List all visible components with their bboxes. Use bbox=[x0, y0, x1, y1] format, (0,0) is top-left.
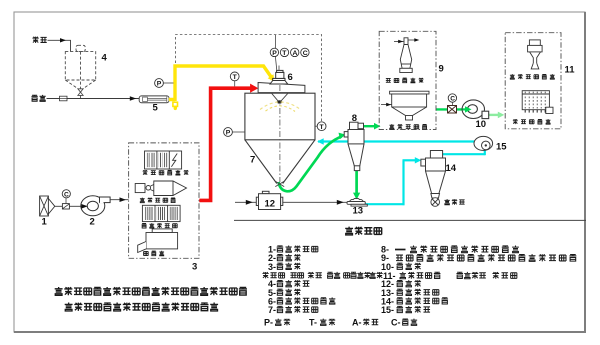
wire feed line into tank 4 bbox=[48, 40, 71, 51]
svg-text:14: 14 bbox=[446, 163, 457, 174]
wire green box 9 to fan 10 bbox=[436, 108, 466, 110]
svg-text:12: 12 bbox=[265, 199, 276, 210]
valve with C controller near filter bbox=[62, 204, 69, 209]
label 布袋除尘器 bbox=[389, 124, 427, 129]
control valve before fan 10 bbox=[448, 106, 457, 114]
wire fan 2 to heater box 3 bbox=[110, 199, 129, 201]
svg-text:11: 11 bbox=[565, 65, 576, 76]
wire cyan 14 to fan 15 bbox=[443, 153, 485, 155]
heat exchanger unit steam+electric bbox=[145, 151, 182, 169]
svg-text:3-: 3- bbox=[268, 262, 276, 272]
heater enclosure box 3 (dash-dot) bbox=[129, 143, 199, 258]
wire dashed signal line bbox=[176, 35, 322, 122]
svg-text:4: 4 bbox=[102, 53, 108, 64]
svg-text:P-: P- bbox=[264, 318, 273, 328]
svg-text:10-: 10- bbox=[381, 262, 394, 272]
svg-text:6: 6 bbox=[288, 72, 293, 83]
tower lid bbox=[258, 83, 305, 93]
collector enclosure box 9 (dash-dot) bbox=[379, 31, 436, 129]
label 导热油换热 bbox=[142, 223, 178, 228]
svg-text:1: 1 bbox=[42, 217, 48, 228]
tower centerline (dash-dot) bbox=[279, 85, 281, 182]
label 出料口 discharge port bbox=[444, 199, 464, 205]
svg-text:7: 7 bbox=[250, 155, 255, 166]
svg-text:5: 5 bbox=[153, 103, 159, 114]
label 文丘里除尘器 bbox=[510, 74, 555, 79]
air filter F1 bbox=[40, 196, 55, 216]
label 蒸汽+电换热 bbox=[143, 170, 189, 175]
svg-text:C: C bbox=[64, 191, 69, 198]
wire line into 12 bbox=[235, 201, 257, 203]
label 喷淋除尘器 bbox=[513, 119, 551, 124]
rotary valve circle with X at 14 outlet bbox=[431, 198, 440, 207]
svg-text:T-: T- bbox=[309, 318, 317, 328]
svg-text:3: 3 bbox=[192, 262, 197, 273]
wire green cyclone 8 to box 9 bbox=[364, 125, 376, 127]
label 燃煤炉 bbox=[144, 251, 164, 256]
tank T4 feed tank (dashed) bbox=[65, 45, 95, 98]
svg-text:C-: C- bbox=[391, 318, 401, 328]
svg-text:C: C bbox=[303, 50, 308, 57]
label 燃油（气） bbox=[140, 198, 176, 203]
instruments P T A C on tower top bbox=[270, 48, 278, 56]
wire cyan riser bbox=[402, 160, 404, 205]
cone tip fitting bbox=[275, 181, 284, 186]
tower body 7 bbox=[245, 93, 315, 140]
instrument T gauge on red pipe bbox=[234, 81, 236, 87]
svg-text:7-: 7- bbox=[268, 305, 276, 315]
svg-text:15: 15 bbox=[496, 142, 507, 153]
legend separator line bbox=[234, 219, 586, 221]
yellow pipe end fitting below pump outlet bbox=[173, 102, 178, 106]
yellow spray arcs bbox=[260, 102, 301, 110]
bag dust collector bbox=[390, 91, 429, 120]
svg-text:15-: 15- bbox=[381, 305, 394, 315]
wire cyan exhaust line tower to fan 15 bbox=[318, 140, 474, 142]
svg-text:13: 13 bbox=[353, 206, 364, 217]
spray funnel inside tower bbox=[272, 93, 288, 101]
instrument T right of tower bbox=[315, 125, 317, 127]
svg-text:P: P bbox=[272, 50, 277, 57]
label 扩散分离器 bbox=[386, 78, 424, 83]
small cyclone 14 bbox=[421, 151, 446, 199]
svg-text:P: P bbox=[157, 81, 162, 88]
atomizer 6 bbox=[270, 70, 288, 84]
svg-text:10: 10 bbox=[476, 119, 487, 130]
dehumidifier 12 bbox=[256, 191, 283, 209]
valve on water line bbox=[60, 96, 68, 101]
oil/gas burner bbox=[135, 181, 186, 196]
wet scrubber enclosure box 11 (dash-dot) bbox=[505, 33, 561, 129]
valve under tank 4 bbox=[78, 89, 83, 96]
fan 15 small induced draft fan bbox=[474, 136, 493, 150]
cyclone 8 bbox=[344, 122, 364, 170]
wire cyan into cyclone 14 bbox=[403, 159, 417, 161]
wire clean water line to pump 5 bbox=[47, 98, 140, 100]
lightning bolt bbox=[171, 154, 177, 167]
wire yellow feed pipe bbox=[169, 66, 272, 101]
heat exchanger unit thermal oil bbox=[142, 205, 180, 221]
svg-text:P: P bbox=[226, 130, 231, 137]
fan 10 induced draft fan bbox=[462, 100, 484, 119]
wire pale green fan 10 outlet to box 11 bbox=[489, 114, 500, 116]
svg-text:8: 8 bbox=[352, 113, 357, 124]
fan B2 supply blower bbox=[81, 196, 105, 216]
svg-text:2: 2 bbox=[90, 217, 95, 228]
diffusion separator bbox=[400, 38, 412, 73]
wire 12 to 13 bbox=[283, 201, 347, 203]
legend title 代号说明 bbox=[345, 227, 382, 235]
note line 1 注：用户可根据当地能源情况选定加热方式， bbox=[55, 287, 247, 295]
note line 2 根据物料特性选择收集、除尘方式。 bbox=[65, 303, 218, 311]
instrument P gauge on yellow line bbox=[163, 82, 173, 84]
pump P5 feed pump bbox=[139, 96, 169, 103]
label 料液 feed liquid bbox=[32, 37, 46, 43]
sensor drop line to atomizer bbox=[274, 35, 276, 48]
venturi scrubber bbox=[528, 40, 543, 69]
tower cone bbox=[245, 140, 315, 184]
wire green tower cone to cyclone 8 bbox=[279, 137, 342, 192]
wire red hot air pipe bbox=[199, 88, 250, 200]
svg-text:A: A bbox=[293, 50, 298, 57]
wire green cyclone 8 down to 13 bbox=[355, 170, 358, 194]
instrument P left of tower bbox=[233, 131, 245, 133]
label 清水 clean water bbox=[31, 95, 45, 101]
svg-text:A-: A- bbox=[352, 318, 362, 328]
svg-text:9: 9 bbox=[439, 64, 444, 75]
svg-text:C: C bbox=[450, 96, 455, 103]
wire filter to valve bbox=[55, 205, 63, 207]
coal furnace bbox=[138, 229, 178, 253]
wire cyan line 13 to riser bbox=[365, 203, 405, 205]
spray scrubber bbox=[522, 91, 549, 110]
wire valve to fan 2 bbox=[69, 205, 84, 207]
cooling unit 13 bbox=[347, 198, 367, 206]
